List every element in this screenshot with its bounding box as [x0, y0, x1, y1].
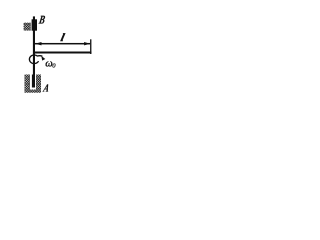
- extension line right: [90, 39, 91, 54]
- background: [0, 0, 110, 110]
- wall hatch top support: [24, 23, 31, 31]
- arrowhead right: [84, 42, 90, 45]
- rotation arc: [29, 55, 42, 64]
- horizontal rod: [34, 52, 91, 54]
- rod thick section in bearing A slot: [32, 75, 35, 88]
- rotation arrowhead: [41, 56, 45, 61]
- arrowhead left: [35, 42, 42, 45]
- bearing B block: [32, 19, 37, 30]
- bottom support hatch: [25, 75, 42, 93]
- dimension line l: [35, 43, 90, 45]
- axis rod AB vertical: [33, 16, 35, 87]
